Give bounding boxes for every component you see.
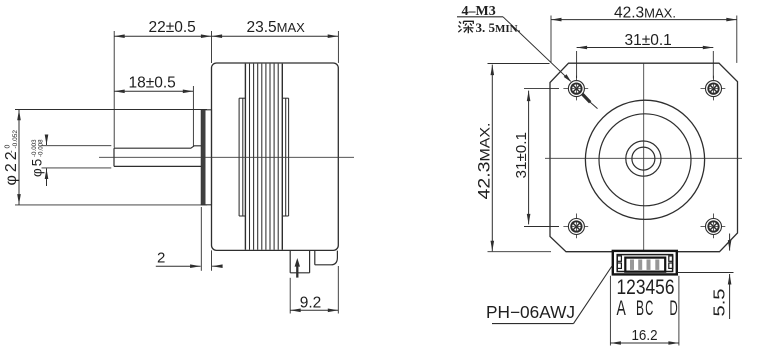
- svg-text:-: -: [7, 150, 16, 153]
- svg-text:42.3MAX.: 42.3MAX.: [476, 123, 494, 200]
- svg-text:-0.052: -0.052: [12, 130, 19, 149]
- svg-text:-0.008: -0.008: [38, 139, 45, 157]
- svg-text:φ5: φ5: [30, 157, 45, 177]
- svg-text:9.2: 9.2: [300, 294, 322, 311]
- svg-text:5.5: 5.5: [712, 288, 729, 316]
- svg-text:42.3MAX.: 42.3MAX.: [614, 5, 676, 22]
- svg-text:2: 2: [157, 250, 165, 267]
- svg-text:23.5MAX: 23.5MAX: [247, 19, 306, 36]
- svg-text:31±0.1: 31±0.1: [513, 132, 530, 179]
- svg-text:0: 0: [5, 145, 12, 149]
- svg-text:18±0.5: 18±0.5: [129, 74, 176, 91]
- svg-text:B: B: [636, 297, 644, 320]
- svg-text:D: D: [670, 297, 678, 320]
- svg-text:C: C: [645, 297, 653, 320]
- svg-text:A: A: [617, 297, 626, 320]
- svg-text:31±0.1: 31±0.1: [625, 32, 672, 49]
- svg-text:123456: 123456: [617, 276, 675, 299]
- svg-text:22±0.5: 22±0.5: [149, 19, 196, 36]
- svg-text:3. 5MIN.: 3. 5MIN.: [476, 20, 521, 35]
- svg-text:16.2: 16.2: [632, 327, 658, 344]
- svg-text:PH−06AWJ: PH−06AWJ: [486, 302, 575, 322]
